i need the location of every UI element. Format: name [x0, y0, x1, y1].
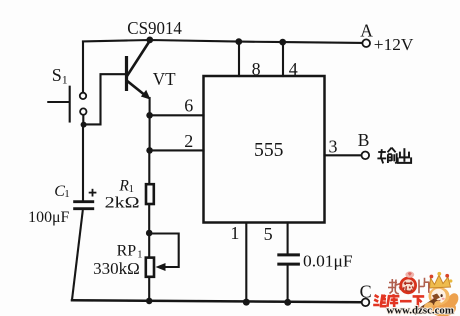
svg-text:1: 1 [64, 188, 70, 200]
svg-text:6: 6 [184, 96, 193, 116]
svg-text:+12V: +12V [374, 35, 414, 54]
svg-text:0.01μF: 0.01μF [303, 252, 353, 271]
svg-text:4: 4 [289, 59, 298, 79]
svg-text:A: A [360, 21, 373, 41]
svg-text:B: B [358, 130, 370, 150]
svg-text:2: 2 [184, 131, 193, 151]
svg-text:CS9014: CS9014 [127, 18, 182, 38]
svg-text:330kΩ: 330kΩ [93, 259, 140, 278]
svg-text:RP: RP [117, 243, 137, 260]
svg-text:5: 5 [264, 224, 273, 244]
svg-text:VT: VT [153, 69, 176, 89]
svg-text:8: 8 [252, 59, 261, 79]
svg-text:C: C [360, 282, 372, 302]
svg-text:www.dzsc.com: www.dzsc.com [386, 306, 454, 316]
svg-text:100μF: 100μF [28, 209, 70, 226]
svg-text:1: 1 [230, 223, 239, 243]
svg-text:S1: S1 [52, 65, 68, 87]
svg-text:555: 555 [254, 139, 284, 161]
svg-text:2kΩ: 2kΩ [105, 195, 140, 212]
svg-text:3: 3 [329, 136, 338, 156]
